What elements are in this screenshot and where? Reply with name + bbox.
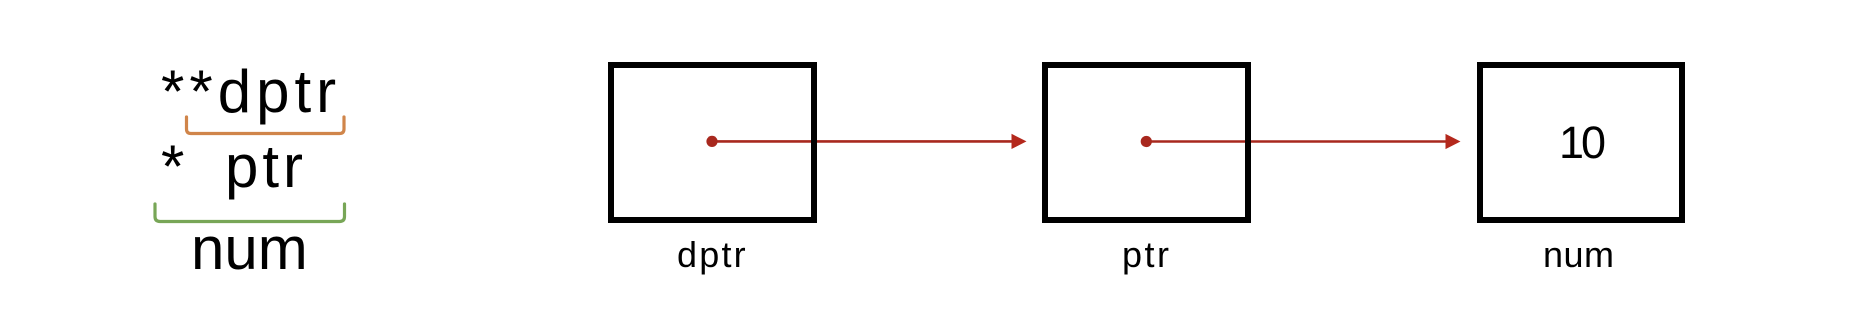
orange bracket under dptr bbox=[187, 117, 345, 134]
label num bbox=[1543, 237, 1615, 273]
green bracket under * ptr bbox=[155, 204, 345, 222]
arrow from dptr to ptr : shaft bbox=[712, 140, 1013, 143]
label ptr bbox=[1122, 237, 1172, 273]
expression line *ptr : ptr bbox=[225, 137, 307, 197]
arrow from dptr to ptr : dot bbox=[706, 136, 717, 147]
box dptr bbox=[608, 62, 817, 223]
box ptr bbox=[1042, 62, 1251, 223]
box num bbox=[1477, 62, 1685, 223]
label dptr bbox=[677, 237, 748, 273]
expression line *ptr : asterisk bbox=[161, 137, 184, 197]
arrow from ptr to num : head bbox=[1446, 134, 1461, 149]
expression line **dptr bbox=[161, 62, 341, 122]
arrow from dptr to ptr : head bbox=[1012, 134, 1027, 149]
expression line num bbox=[191, 219, 308, 279]
arrow from ptr to num : shaft bbox=[1146, 140, 1447, 143]
value 10 in box num bbox=[1559, 120, 1603, 165]
arrow from ptr to num : dot bbox=[1141, 136, 1152, 147]
